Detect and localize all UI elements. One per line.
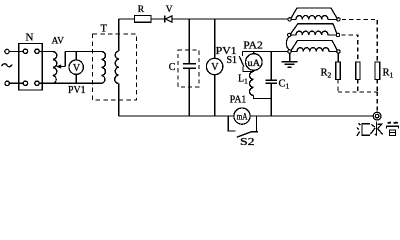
- svg-text:AV: AV: [52, 37, 65, 47]
- voltmeter PV1 mid bottom lead: [214, 75, 216, 116]
- ground bar 2: [284, 63, 294, 65]
- AC source terminal top: [5, 49, 9, 53]
- diode V triangle: [165, 16, 172, 22]
- svg-text:mA: mA: [237, 112, 248, 122]
- secondary top lead: [118, 19, 120, 51]
- svg-text:C1: C1: [279, 79, 290, 91]
- coil row 1 left terminal: [288, 18, 291, 21]
- curve row2 terminal to row3 junction: [286, 37, 289, 50]
- voltmeter PV1 mid: [206, 58, 222, 74]
- svg-text:L1: L1: [238, 74, 248, 86]
- AC tilde symbol: [2, 64, 13, 67]
- svg-text:PA2: PA2: [243, 40, 262, 51]
- svg-text:R: R: [138, 5, 145, 15]
- ground bar 1: [282, 61, 298, 63]
- capacitor C bottom plate: [183, 67, 196, 69]
- resistor R1: [375, 62, 380, 80]
- AC source terminal bottom: [5, 81, 9, 85]
- svg-text:V: V: [211, 62, 219, 73]
- capacitor C1 top lead: [270, 52, 272, 81]
- box terminal bottom-right: [35, 81, 39, 85]
- svg-text:PA1: PA1: [230, 95, 247, 106]
- svg-text:R2: R2: [321, 68, 332, 80]
- voltmeter PV1 mid top lead: [214, 19, 216, 58]
- switch box N: [19, 44, 43, 91]
- dashed drop to water pipe terminal: [376, 92, 378, 112]
- switch S1 blade: [239, 56, 244, 67]
- coil row 2 right terminal: [336, 33, 339, 36]
- coil row 3 junction terminal: [288, 50, 291, 53]
- switch S2 blade: [237, 132, 258, 137]
- coil row 1 bypass trapezoid: [291, 8, 337, 18]
- L1 bottom wire to C1: [254, 96, 272, 99]
- svg-text:V: V: [73, 63, 81, 74]
- coil row 1 winding: [291, 15, 336, 19]
- dashed lead R2 bottom: [337, 80, 339, 93]
- measuring wire y51.5: [243, 51, 289, 53]
- S1 elbow to uA bottom: [243, 67, 254, 72]
- coil row 3 bypass trapezoid: [291, 40, 337, 50]
- box terminal bottom-left: [19, 82, 24, 84]
- svg-text:PV1: PV1: [68, 85, 86, 96]
- autotransformer AV coil: [53, 52, 57, 84]
- svg-text:S1: S1: [227, 55, 238, 66]
- inductor L1: [250, 72, 254, 96]
- svg-text:R1: R1: [383, 68, 394, 80]
- wire R to diode: [151, 18, 165, 20]
- transformer T dashed box: [93, 34, 137, 100]
- solid lead row3 to R2 resistor: [337, 53, 339, 62]
- wire wiper to transformer primary top: [65, 51, 101, 53]
- diode V cathode bar: [164, 15, 166, 22]
- dashed wire row1 to R1: [342, 19, 377, 62]
- coil row 2 winding: [291, 31, 336, 35]
- coil row 2 bypass trapezoid: [291, 24, 337, 34]
- water pipe terminal outer: [373, 112, 381, 120]
- bottom wire from box N to transformer primary: [42, 82, 101, 84]
- svg-text:S2: S2: [240, 137, 255, 148]
- transformer secondary coil: [115, 51, 119, 83]
- svg-text:T: T: [101, 24, 108, 35]
- coil row 1 right terminal: [337, 18, 340, 21]
- ground bar 3: [287, 66, 291, 68]
- capacitor C1 bottom lead: [270, 83, 272, 116]
- junction lead to capacitor C: [188, 19, 190, 64]
- water pipe terminal inner: [375, 114, 379, 118]
- svg-text:N: N: [26, 32, 34, 44]
- label 汇水管 glyph 管: [386, 122, 398, 136]
- capacitor C top plate: [183, 63, 196, 65]
- bottom rail left: [119, 115, 234, 117]
- capacitor C dashed box: [178, 50, 199, 87]
- dashed lead middle resistor bottom: [357, 80, 359, 93]
- capacitor C1 bottom plate: [266, 82, 278, 84]
- AV wiper arrow: [56, 64, 61, 68]
- coil row 3 right terminal: [337, 50, 340, 53]
- wire box N to AV coil top: [42, 51, 52, 53]
- label 汇水管 glyph 汇: [357, 123, 370, 136]
- wire source top to box N: [9, 51, 18, 53]
- voltmeter PV1 left: [69, 60, 83, 74]
- capacitor C bottom lead: [188, 68, 190, 116]
- transformer primary coil: [102, 52, 106, 84]
- bottom rail right: [250, 115, 373, 117]
- dashed wire row2 to middle resistor: [341, 35, 357, 62]
- resistor R: [135, 16, 152, 23]
- microammeter PA2 top lead: [253, 52, 255, 55]
- microammeter PA2: [246, 54, 263, 71]
- milliammeter PA1: [234, 108, 250, 124]
- ground stem: [289, 53, 291, 61]
- resistor R2: [336, 62, 341, 80]
- corner down from measuring wire: [242, 52, 244, 57]
- wire source bottom to box N: [9, 82, 18, 84]
- box terminal top-right: [35, 49, 39, 53]
- top wire secondary to R: [119, 18, 135, 20]
- box terminal top-left: [19, 51, 24, 53]
- top wire diode to coil terminal: [172, 18, 288, 20]
- middle resistor: [356, 62, 360, 80]
- svg-text:uA: uA: [248, 59, 261, 69]
- switch S2 left post: [228, 116, 235, 131]
- svg-text:C: C: [169, 62, 176, 73]
- svg-text:V: V: [166, 5, 173, 15]
- dashed lead R1 bottom: [376, 80, 378, 93]
- capacitor C1 top plate: [266, 79, 278, 81]
- secondary bottom lead: [118, 84, 120, 117]
- coil row 3 winding: [291, 48, 336, 52]
- switch S2 right post: [256, 116, 258, 132]
- microammeter PA2 bottom lead: [253, 70, 255, 71]
- dashed manifold: [338, 91, 377, 93]
- label 汇水管 glyph 水: [370, 122, 382, 136]
- coil row 2 left terminal: [288, 33, 291, 36]
